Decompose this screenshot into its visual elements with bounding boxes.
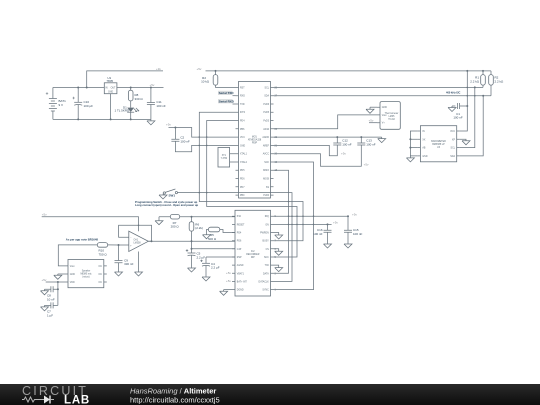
svg-text:VBAT1: VBAT1: [237, 272, 245, 275]
node U1 gnd at rail: [110, 118, 112, 120]
note programming switch: [135, 200, 199, 207]
node crossing sw wire: [288, 201, 290, 203]
wire SDA drop to sensor: [460, 96, 484, 156]
capacitor C1: [452, 103, 467, 120]
resistor R7: [170, 214, 179, 228]
svg-text:http://circuitlab.com/ccxxtj5: http://circuitlab.com/ccxxtj5: [130, 396, 220, 405]
resistor R6: [189, 217, 203, 253]
resistor R8: [128, 88, 143, 102]
svg-text:+5v: +5v: [341, 152, 346, 156]
svg-text:10 nF: 10 nF: [47, 297, 55, 301]
wire U1 output rail +5v: [117, 87, 164, 89]
wire +9v feed up: [87, 71, 163, 88]
svg-text:7805: 7805: [106, 79, 113, 83]
svg-text:XX: XX: [422, 139, 426, 141]
capacitor C7: [45, 302, 58, 317]
node R1 top: [482, 70, 484, 72]
svg-text:RSP: RSP: [237, 257, 242, 259]
svg-text:RXD: RXD: [240, 96, 245, 98]
node output at R6/C5 vertical: [191, 240, 193, 242]
svg-text:(2.2k): (2.2k): [195, 226, 203, 230]
svg-text:Thermometer: Thermometer: [385, 112, 399, 115]
wire op-amp feedback: [119, 225, 152, 241]
svg-text:IN: IN: [105, 88, 108, 90]
svg-text:PD6: PD6: [240, 179, 245, 181]
ground at C1: [448, 106, 456, 112]
svg-text:100 nF: 100 nF: [342, 142, 352, 146]
svg-text:100 µF: 100 µF: [84, 104, 94, 108]
svg-text:100 nF: 100 nF: [180, 139, 190, 143]
wire IC2 gnd pin3: [274, 233, 283, 240]
wire mic gnd: [58, 273, 68, 275]
svg-text:+5v: +5v: [42, 278, 47, 282]
pressure sensor U3 box: [420, 126, 456, 162]
wire op-amp V- to ground: [138, 252, 140, 273]
battery BAT1: [46, 88, 66, 120]
svg-text:NC: NC: [99, 282, 103, 284]
node C13 top: [360, 136, 362, 138]
svg-text:XTAL1: XTAL1: [240, 153, 248, 156]
regulator U1 7805: [104, 76, 117, 94]
svg-text:+9v: +9v: [156, 67, 161, 71]
svg-text:+5v: +5v: [197, 67, 202, 71]
wire MCU INT0 drop: [199, 112, 303, 241]
IC2 pin labels: [237, 216, 248, 291]
ground C8: [41, 289, 49, 295]
svg-text:PxD3: PxD3: [263, 121, 269, 123]
node R8 top: [130, 87, 132, 89]
svg-text:C4P: C4P: [237, 249, 242, 251]
svg-text:CS: CS: [266, 249, 270, 251]
svg-text:PxD0: PxD0: [263, 195, 269, 197]
svg-text:OA1: OA1: [134, 239, 139, 242]
svg-text:OUT: OUT: [111, 88, 116, 90]
svg-text:AGND: AGND: [262, 136, 269, 139]
wire mic cap bus: [57, 282, 59, 305]
ground R7 left: [155, 217, 163, 225]
svg-text:BMP085 LP: BMP085 LP: [432, 144, 445, 146]
svg-text:GND: GND: [70, 274, 75, 276]
svg-text:BUSY: BUSY: [263, 241, 270, 243]
node V+ crossing feedback: [138, 225, 140, 227]
MCU pin stubs left: [236, 87, 239, 195]
svg-text:DGND: DGND: [237, 290, 244, 292]
svg-text:Vout: Vout: [70, 265, 75, 268]
svg-text:AVCC: AVCC: [263, 153, 270, 156]
svg-text:2.2 µF: 2.2 µF: [197, 255, 206, 259]
wire R7 rail to lower box: [159, 216, 236, 218]
svg-text:1 µF: 1 µF: [47, 314, 53, 318]
svg-text:+5v: +5v: [364, 162, 369, 166]
node mic VDD tap: [57, 281, 59, 283]
tag Serial RXD: [218, 99, 236, 104]
wire VCC riser to sensor: [460, 71, 468, 131]
svg-text:AREF: AREF: [263, 144, 270, 147]
svg-text:Serial RXD: Serial RXD: [219, 100, 235, 104]
node feedback at output: [151, 240, 153, 242]
MCU pin labels: [240, 87, 248, 197]
wire IC2 DGND: [224, 289, 232, 291]
ground C16: [324, 244, 332, 248]
svg-text:LAB: LAB: [64, 395, 90, 405]
capacitor C16: [313, 224, 331, 244]
capacitor C15: [344, 216, 363, 244]
node C1 at VCC riser: [466, 105, 468, 107]
wire MCU gnd rail: [274, 136, 382, 138]
MCU pin stubs right: [271, 87, 274, 195]
resistor R5: [207, 227, 236, 241]
svg-text:BAROMETER: BAROMETER: [431, 140, 446, 143]
svg-text:9 V: 9 V: [59, 103, 64, 107]
ground C4: [202, 277, 210, 281]
svg-text:SYNC: SYNC: [262, 290, 269, 292]
wire power bottom rail: [53, 118, 151, 120]
capacitor C9: [115, 245, 134, 272]
capacitor C13: [274, 137, 376, 166]
svg-text:NC: NC: [99, 274, 103, 276]
svg-text:SDA: SDA: [450, 155, 455, 158]
svg-text:(micro): (micro): [82, 276, 89, 279]
capacitor C11: [147, 88, 166, 120]
wire +5v top rail: [206, 70, 492, 72]
svg-text:100 nF: 100 nF: [453, 116, 463, 120]
node crossings C2 area: [199, 136, 201, 138]
logger IC2 box: [235, 210, 271, 296]
wire thermo Vout to MCU: [274, 115, 378, 129]
wire MCU PD4 drop: [207, 121, 297, 258]
node battery rail / +9v riser: [86, 87, 88, 89]
capacitor C4: [200, 257, 219, 277]
svg-text:2.2 µF: 2.2 µF: [211, 266, 220, 270]
node C10 top: [77, 87, 79, 89]
MCU center label: [248, 137, 262, 145]
ground C15: [344, 244, 352, 248]
svg-text:PD7: PD7: [240, 187, 245, 189]
logo zigzag resistor: [22, 397, 38, 402]
thermometer U2 box: [380, 102, 400, 130]
wire battery top rail: [53, 87, 104, 89]
capacitor C5: [186, 249, 205, 268]
capacitor C10: [73, 88, 94, 120]
svg-text:SDA: SDA: [264, 95, 269, 98]
svg-text:+5v: +5v: [226, 271, 231, 275]
ground sensor left bus: [406, 156, 414, 162]
LED D1: [115, 101, 140, 120]
svg-text:200 Ω: 200 Ω: [171, 225, 180, 229]
svg-text:100 nF: 100 nF: [313, 232, 323, 236]
ground mic: [54, 274, 62, 279]
svg-text:AGND: AGND: [237, 264, 244, 267]
resistor R2 pull-up 10k: [201, 71, 235, 88]
svg-text:+5v: +5v: [333, 220, 338, 224]
wire mic VDD: [46, 281, 68, 283]
svg-text:+5v: +5v: [226, 279, 231, 283]
svg-text:PDIP: PDIP: [252, 143, 258, 145]
svg-text:+5v: +5v: [150, 83, 155, 87]
svg-text:GN: GN: [265, 224, 269, 226]
capacitor C2: [171, 128, 235, 152]
wire C4 to box pin6: [206, 256, 236, 258]
svg-text:+5v: +5v: [42, 212, 47, 216]
svg-text:GND: GND: [240, 145, 245, 147]
wire IC2 gnd pin5: [274, 249, 283, 256]
svg-text:TXD: TXD: [240, 104, 245, 106]
IC2 pin stubs right: [271, 216, 274, 289]
svg-text:AB: AB: [422, 147, 426, 150]
node C16 top: [327, 223, 329, 225]
wire SCL rail: [274, 86, 484, 88]
wire thermo gnd: [370, 106, 377, 108]
svg-text:1 TL 5KRD: 1 TL 5KRD: [115, 109, 131, 113]
node bus pins: [409, 138, 411, 140]
svg-text:MEMS mic: MEMS mic: [80, 274, 92, 276]
svg-text:2.2 kΩ: 2.2 kΩ: [495, 79, 505, 83]
svg-text:MCU: MCU: [252, 137, 258, 139]
wire tap to box pin5: [192, 248, 236, 250]
wire +5v rail to op-amp V+: [42, 217, 139, 232]
node SCL drop: [474, 86, 476, 88]
svg-text:VCC: VCC: [450, 131, 455, 133]
svg-text:PD6: PD6: [237, 241, 242, 243]
svg-text:XT1: XT1: [222, 155, 227, 157]
svg-text:330 Ω: 330 Ω: [135, 97, 144, 101]
node SDA drop: [482, 95, 484, 97]
ground C9: [115, 272, 123, 276]
tag Serial TXD: [218, 91, 236, 96]
svg-text:MOSI: MOSI: [263, 179, 269, 181]
svg-text:SW1: SW1: [169, 194, 176, 198]
svg-text:LM358: LM358: [134, 243, 142, 245]
svg-text:PD4: PD4: [240, 121, 245, 123]
svg-text:GND: GND: [422, 156, 427, 158]
ground sensor XP pin: [460, 139, 470, 145]
svg-text:GND: GND: [108, 92, 113, 94]
svg-text:400 kHz I2C: 400 kHz I2C: [446, 91, 461, 95]
svg-text:100 nF: 100 nF: [366, 142, 376, 146]
svg-text:P10: P10: [237, 216, 242, 218]
wire R10 right to op-amp +: [108, 244, 129, 246]
node crossing artifacts i2c: [467, 87, 469, 89]
sensor pin stubs: [417, 131, 459, 156]
IC2 pin stubs left: [232, 216, 235, 289]
svg-text:TO-92: TO-92: [388, 119, 395, 121]
ground gnd rail end: [378, 137, 386, 143]
node C10 bottom: [77, 118, 79, 120]
svg-text:330 nF: 330 nF: [124, 262, 134, 266]
svg-text:PB0: PB0: [240, 195, 245, 197]
resistor R10: [97, 243, 107, 257]
wire IC2 +5v rail pin2: [274, 223, 332, 225]
svg-text:BAT+ INT: BAT+ INT: [237, 280, 248, 283]
node C15 top: [347, 215, 349, 217]
crystal XT1 box: [218, 148, 236, 168]
svg-text:NC: NC: [99, 266, 103, 268]
node C11 top: [150, 87, 152, 89]
wire R10 left to mic Vout: [58, 245, 97, 266]
svg-text:SCL: SCL: [265, 87, 270, 89]
svg-text:MISO: MISO: [263, 170, 269, 172]
svg-text:PD5: PD5: [240, 170, 245, 172]
svg-text:RECORDER: RECORDER: [246, 254, 259, 256]
ground SW1: [159, 194, 167, 199]
svg-text:TX0: TX0: [265, 265, 270, 267]
op-amp U1 MCU box: [239, 82, 271, 199]
svg-text:ATMEGA328: ATMEGA328: [248, 139, 262, 142]
node grid crossings rail1: [288, 215, 315, 217]
microphone MIC1 box: [68, 260, 107, 288]
resistor R2 2.2k pullup: [489, 71, 504, 96]
node C9 tap: [118, 244, 120, 246]
wire op-amp output to lower box: [148, 240, 235, 243]
svg-text:+5v: +5v: [352, 212, 357, 216]
capacitor C8: [45, 286, 58, 301]
IC2 center label: [246, 251, 259, 259]
logo diode: [38, 399, 48, 401]
ground R5 left: [203, 235, 211, 239]
footer bar: [0, 384, 540, 405]
node D1 bottom: [130, 118, 132, 120]
node tap pin5: [191, 248, 193, 250]
svg-text:750 Ω: 750 Ω: [99, 252, 108, 256]
svg-text:LM35: LM35: [389, 116, 395, 118]
svg-text:XP: XP: [452, 139, 456, 141]
wire SW1 to lower box: [178, 193, 293, 282]
thermo pin stubs: [377, 107, 380, 123]
svg-text:IN: IN: [422, 131, 425, 133]
node C8 at bus: [57, 288, 59, 290]
svg-text:As per app note BR1648: As per app note BR1648: [66, 237, 99, 241]
svg-text:VCC: VCC: [240, 137, 245, 139]
svg-text:100 nF: 100 nF: [353, 232, 363, 236]
ground thermo: [366, 107, 374, 113]
svg-text:+5v: +5v: [369, 119, 374, 123]
wire +5v to MCU VCC: [169, 128, 236, 138]
node grid crossings rail2: [288, 224, 315, 226]
svg-text:Speaker: Speaker: [82, 270, 91, 273]
svg-text:2.2 kΩ: 2.2 kΩ: [470, 79, 480, 83]
svg-text:SS: SS: [266, 187, 270, 189]
wire SCL drop to sensor: [460, 87, 475, 147]
wire IC2 gnd pin7: [274, 265, 283, 272]
svg-text:PB6: PB6: [240, 129, 245, 131]
svg-text:RESET: RESET: [237, 224, 245, 226]
wire MCU MISO drop to IC2 DATA: [274, 170, 289, 273]
capacitor C12: [274, 137, 352, 156]
svg-text:AD10: AD10: [263, 128, 269, 131]
svg-text:+5v: +5v: [166, 123, 171, 127]
node VCC riser on +5v rail: [466, 70, 468, 72]
svg-text:DATACLK: DATACLK: [259, 280, 270, 283]
svg-text:PD4: PD4: [237, 233, 242, 235]
resistor R1 2.2k pullup: [470, 71, 485, 88]
node R2 top on +5v rail: [215, 70, 217, 72]
ground op-amp V-: [135, 272, 143, 276]
svg-text:Long connect (open) record - O: Long connect (open) record - Open and po…: [135, 203, 199, 207]
svg-text:IRQ: IRQ: [265, 216, 269, 218]
svg-text:PxD6: PxD6: [263, 104, 269, 106]
svg-text:GND: GND: [382, 107, 387, 109]
svg-text:Serial TXD: Serial TXD: [219, 91, 235, 95]
op-amp OA1: [129, 231, 149, 251]
svg-text:DIP: DIP: [251, 257, 255, 259]
wire SDA rail: [274, 95, 492, 97]
wire U1 GND drop: [110, 94, 112, 120]
svg-text:XTAL2: XTAL2: [240, 161, 248, 164]
ground power rail: [147, 119, 155, 125]
svg-text:100 nF: 100 nF: [156, 104, 166, 108]
svg-text:RST: RST: [240, 87, 245, 89]
svg-text:10 kΩ: 10 kΩ: [201, 79, 210, 83]
ground C7: [41, 305, 49, 311]
svg-text:SCC: SCC: [264, 257, 269, 259]
svg-text:VDD: VDD: [70, 282, 75, 284]
ground IC2 DGND: [220, 290, 228, 296]
svg-text:DATA: DATA: [263, 272, 269, 275]
wire IC2 +5v rail pin1: [274, 215, 349, 217]
svg-text:PWRDN: PWRDN: [260, 233, 269, 235]
net +5v tag IC2 VBAT1: [226, 271, 231, 275]
node R6 top: [191, 216, 193, 218]
wire sensor left ground bus: [410, 131, 417, 156]
svg-text:INT0: INT0: [240, 112, 246, 114]
svg-text:SCL: SCL: [451, 148, 456, 150]
switch SW1: [163, 189, 177, 198]
node C12 top: [336, 136, 338, 138]
svg-text:7.37M: 7.37M: [221, 158, 227, 160]
svg-text:PxD5: PxD5: [263, 112, 269, 114]
net +5v tag thermo: [369, 119, 378, 123]
svg-text:HansRoaming / Altimeter: HansRoaming / Altimeter: [130, 387, 216, 396]
svg-text:SCK: SCK: [264, 162, 269, 164]
ground C5: [188, 268, 196, 272]
node C2 top: [174, 127, 176, 129]
wire MCU SCK drop to IC2 SYNC: [274, 162, 314, 290]
svg-text:500 Ω: 500 Ω: [208, 237, 217, 241]
